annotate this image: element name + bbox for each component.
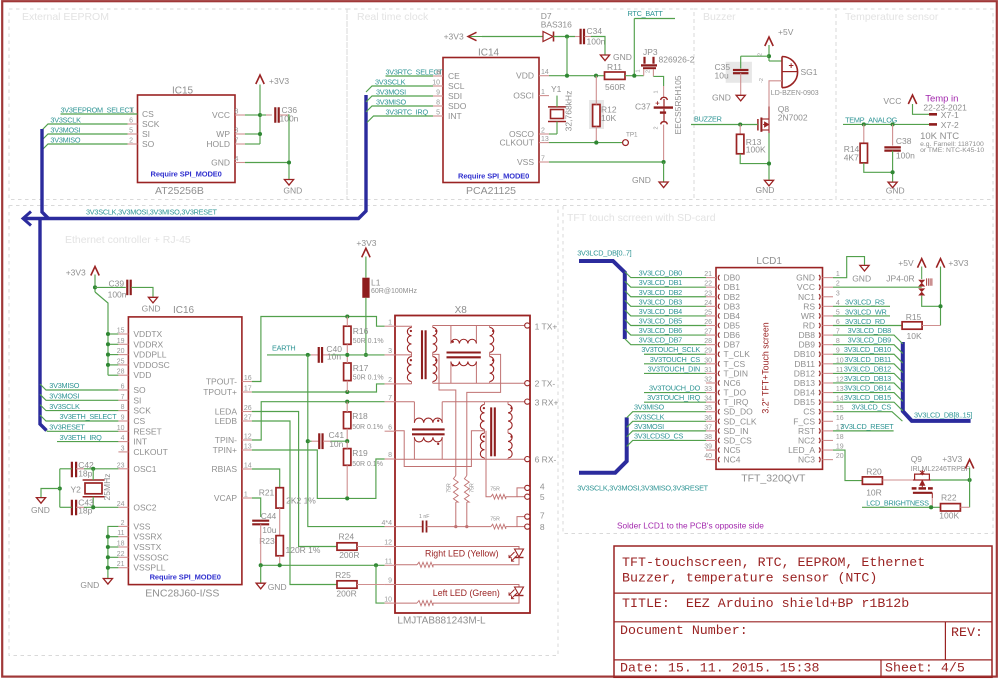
wire TPOUT+ to X8 pin2 [252, 384, 385, 392]
svg-text:R16: R16 [353, 326, 369, 336]
+5V power symbol JP4 [918, 259, 926, 268]
svg-text:9: 9 [388, 578, 392, 585]
+5V power symbol buzzer [765, 37, 773, 46]
junction GND node [287, 160, 291, 164]
wire LCD_BRIGHTNESS to R22 [862, 506, 941, 508]
ground symbol below C36 [284, 180, 293, 186]
svg-text:11: 11 [385, 559, 392, 566]
svg-text:100K: 100K [746, 144, 766, 154]
junction D7/C34 node [565, 34, 569, 38]
svg-text:3V3LCD_DB4: 3V3LCD_DB4 [639, 307, 683, 316]
svg-text:+3V3: +3V3 [948, 258, 968, 268]
svg-text:OSC1: OSC1 [133, 464, 156, 474]
wire +3V3 down to R15 [940, 267, 942, 326]
svg-text:3V3LCD_DB14: 3V3LCD_DB14 [844, 384, 891, 393]
svg-text:GND: GND [712, 93, 731, 103]
connector pin X7-1 [929, 113, 937, 116]
bus 3V3LCD_DB[8..15] [903, 342, 971, 421]
ground symbol C35 [736, 95, 745, 101]
wire 3V3RESET to IC16 RESET [47, 430, 119, 433]
wire TEMP_ANALOG to X7-2 [843, 123, 929, 125]
svg-text:TP1: TP1 [626, 132, 638, 139]
svg-text:RST: RST [798, 426, 815, 436]
svg-text:TPOUT-: TPOUT- [206, 377, 237, 387]
svg-text:IC15: IC15 [172, 86, 194, 97]
svg-text:DB1: DB1 [724, 282, 741, 292]
wire LEDB to R25 [252, 421, 337, 585]
wire OSCI to Y1 [556, 96, 558, 107]
X8 RX bottom rail pin 8 to pin 6 RX- [395, 458, 525, 460]
svg-text:10: 10 [384, 596, 392, 603]
IC16 body [128, 317, 242, 585]
svg-text:3V3MISO: 3V3MISO [634, 403, 664, 412]
svg-text:200R: 200R [336, 589, 356, 599]
svg-text:2 TX-: 2 TX- [535, 379, 556, 389]
svg-text:1: 1 [836, 271, 840, 278]
connector pin X7-2 [929, 123, 937, 126]
svg-text:32,768kHz: 32,768kHz [564, 91, 574, 132]
svg-text:13: 13 [244, 444, 252, 451]
svg-text:3V3LCD_CS: 3V3LCD_CS [851, 403, 891, 412]
svg-text:Buzzer: Buzzer [703, 11, 736, 23]
svg-text:Solder LCD1 to the PCB's oppos: Solder LCD1 to the PCB's opposite side [617, 521, 764, 531]
svg-text:GND: GND [268, 582, 287, 592]
svg-text:CE: CE [448, 71, 460, 81]
wire RD to R15 [833, 325, 902, 327]
svg-text:1: 1 [244, 492, 248, 499]
svg-text:3V3RTC_SELECT: 3V3RTC_SELECT [386, 67, 444, 76]
svg-text:Document Number:: Document Number: [620, 623, 748, 638]
svg-text:3V3LCD_DB0: 3V3LCD_DB0 [639, 269, 683, 278]
svg-text:LCD_BRIGHTNESS: LCD_BRIGHTNESS [866, 499, 929, 508]
svg-text:9: 9 [121, 415, 125, 422]
wire VCC to X7-1 [913, 104, 930, 114]
svg-text:4: 4 [540, 482, 545, 492]
wire IC14 VDD rail [549, 75, 604, 77]
svg-text:RD: RD [803, 321, 815, 331]
bus vertical EEPROM left [42, 129, 49, 219]
svg-text:VDD: VDD [516, 71, 534, 81]
svg-text:3V3ETH_IRQ: 3V3ETH_IRQ [60, 433, 103, 442]
X8 RX transformer core bars [490, 407, 492, 456]
svg-text:DB10: DB10 [794, 349, 816, 359]
+3V3 power symbol LCD right [936, 259, 944, 268]
svg-text:25MHz: 25MHz [102, 474, 112, 501]
wire C36 to GND [280, 114, 288, 116]
X8 RX choke core bars [412, 428, 445, 430]
svg-text:VCC: VCC [212, 110, 230, 120]
svg-text:2N7002: 2N7002 [778, 112, 808, 122]
svg-text:Right LED (Yellow): Right LED (Yellow) [425, 549, 499, 559]
wire 3V3RTC_SELECT to IC14 CE [386, 75, 434, 77]
svg-text:3V3LCD_DB[8..15]: 3V3LCD_DB[8..15] [914, 411, 972, 420]
svg-text:10R: 10R [866, 488, 882, 498]
svg-text:18p: 18p [78, 469, 92, 479]
svg-text:50R 0.1%: 50R 0.1% [353, 338, 384, 345]
wire R12 bottom to CLKOUT [595, 127, 597, 143]
wire 3V3MOSI to IC14 SDI [366, 96, 433, 102]
svg-text:7: 7 [541, 156, 545, 163]
svg-text:or TME: NTC-K45-10: or TME: NTC-K45-10 [920, 147, 984, 154]
svg-text:GND: GND [632, 175, 651, 185]
svg-text:DB9: DB9 [798, 340, 815, 350]
resistor R22 100K [941, 504, 961, 511]
svg-text:20: 20 [836, 453, 844, 460]
svg-text:12: 12 [384, 540, 392, 547]
svg-text:Require SPI_MODE0: Require SPI_MODE0 [458, 172, 529, 181]
svg-text:F_CS: F_CS [793, 416, 815, 426]
ground symbol IC16 VSS [103, 579, 112, 585]
svg-text:3V3TOUCH_DO: 3V3TOUCH_DO [649, 384, 701, 393]
svg-text:3V3SCLK: 3V3SCLK [50, 115, 81, 124]
wire C35 to GND [740, 73, 742, 95]
svg-text:NC3: NC3 [798, 455, 815, 465]
ground symbol ethernet rail [256, 583, 265, 589]
svg-text:T_CLK: T_CLK [724, 349, 751, 359]
wire C34 to GND [584, 36, 591, 38]
bus horizontal 3V3SCLK,3V3MOSI,3V3MISO,3V3RESET [24, 95, 366, 219]
svg-text:3V3RESET: 3V3RESET [49, 423, 85, 432]
X8 RX choke bottom winding [413, 437, 415, 459]
X8 TX pin1 wire and primary upper winding [395, 325, 412, 327]
svg-text:3V3TOUCH_SCLK: 3V3TOUCH_SCLK [641, 345, 700, 354]
svg-text:2: 2 [129, 138, 133, 145]
svg-text:SCK: SCK [133, 406, 151, 416]
svg-text:INT: INT [133, 437, 147, 447]
svg-text:100K: 100K [939, 511, 959, 521]
ground symbol C39 [148, 297, 157, 303]
svg-text:50R 0.1%: 50R 0.1% [352, 461, 383, 468]
svg-text:SI: SI [142, 129, 150, 139]
X8 internal resistor 75R vertical 2 [464, 476, 469, 503]
+3V3 power symbol Q9 [965, 460, 973, 469]
svg-text:3: 3 [388, 348, 392, 355]
X8 RX output circle pin 6 RX- [525, 457, 530, 462]
svg-text:3V3SCLK,3V3MOSI,3V3MISO,3V3RES: 3V3SCLK,3V3MOSI,3V3MISO,3V3RESET [86, 208, 217, 217]
svg-text:EECS5R5H105: EECS5R5H105 [673, 75, 683, 134]
svg-text:+3V3: +3V3 [356, 238, 376, 248]
svg-text:3V3SCLK: 3V3SCLK [634, 412, 665, 421]
svg-text:+3V3: +3V3 [269, 76, 289, 86]
X8 TX output circle pin 2 TX- [525, 381, 530, 386]
svg-text:3: 3 [836, 290, 840, 297]
svg-text:DB8: DB8 [798, 330, 815, 340]
svg-text:WR: WR [801, 311, 815, 321]
junction VCC node [258, 113, 262, 117]
svg-text:7: 7 [121, 394, 125, 401]
wire C42/C43 left tie to GND [60, 468, 72, 470]
svg-text:GND: GND [211, 158, 230, 168]
svg-text:4: 4 [235, 156, 239, 163]
wire R25 to X8 pin9 [357, 584, 385, 586]
svg-text:17: 17 [244, 386, 252, 393]
svg-text:R11: R11 [607, 62, 622, 72]
svg-text:LD-BZEN-0903: LD-BZEN-0903 [771, 90, 819, 97]
wire 3V3SCLK to IC15 SCK [42, 124, 128, 130]
svg-text:GND: GND [886, 186, 905, 196]
wire IC15 WP HOLD tie [245, 143, 260, 145]
svg-text:3V3LCD_DB8: 3V3LCD_DB8 [848, 326, 892, 335]
svg-text:+: + [789, 61, 794, 71]
capacitor C41 10n [308, 440, 312, 442]
capacitor C35 10u with highlight [726, 62, 752, 83]
svg-text:16: 16 [836, 415, 844, 422]
svg-text:VDDTX: VDDTX [133, 329, 162, 339]
svg-text:3V3TOUCH_IRQ: 3V3TOUCH_IRQ [647, 393, 700, 402]
X8 internal 75R connections to 4*4 line [455, 502, 457, 526]
svg-text:10n: 10n [327, 352, 341, 362]
svg-text:2: 2 [646, 70, 652, 73]
resistor R12 10K with highlight [589, 100, 604, 129]
svg-text:T_IRQ: T_IRQ [724, 397, 749, 407]
svg-text:75R: 75R [470, 483, 476, 493]
capacitor C40 10n [318, 347, 320, 363]
svg-text:GND: GND [80, 580, 99, 590]
svg-text:3V3TOUCH_DIN: 3V3TOUCH_DIN [648, 364, 700, 373]
svg-text:3V3LCD_DB9: 3V3LCD_DB9 [848, 336, 892, 345]
wire 3V3SCLK to IC16 SCK [40, 405, 118, 411]
svg-text:Y1: Y1 [551, 84, 562, 94]
wire R13 bottom to GND rail [740, 154, 769, 164]
svg-text:VDDOSC: VDDOSC [133, 360, 169, 370]
svg-text:RTC_BATT: RTC_BATT [628, 9, 664, 18]
X8 TX mid tap down wire to termination [433, 354, 456, 475]
svg-text:TPIN-: TPIN- [215, 435, 237, 445]
resistor R19 50R [344, 449, 351, 466]
svg-text:+5V: +5V [778, 27, 794, 37]
svg-text:3V3LCD_DB15: 3V3LCD_DB15 [844, 393, 891, 402]
ground symbol temp [888, 182, 897, 188]
svg-text:3V3LCD_DB2: 3V3LCD_DB2 [639, 288, 683, 297]
svg-text:DB3: DB3 [724, 301, 741, 311]
resistor R16 50R [344, 326, 351, 344]
svg-text:1: 1 [388, 319, 392, 326]
svg-text:560R: 560R [605, 82, 625, 92]
svg-text:SD_IN: SD_IN [724, 426, 749, 436]
svg-text:3V3LCD_DB11: 3V3LCD_DB11 [844, 355, 891, 364]
wire D7 cathode to VDD node [554, 36, 576, 38]
svg-text:VSSPLL: VSSPLL [133, 563, 165, 573]
resistor R11 560R [605, 72, 626, 79]
wire 3V3MOSI to IC16 SI [40, 394, 118, 400]
IC15 body [138, 95, 236, 183]
junction R17 bottom [345, 390, 349, 394]
svg-text:T_DIN: T_DIN [724, 368, 749, 378]
svg-text:CS: CS [803, 407, 815, 417]
junction VDD/R12 [565, 74, 569, 78]
svg-text:+3V3: +3V3 [444, 32, 464, 42]
svg-text:3V3LCD_DB12: 3V3LCD_DB12 [844, 364, 891, 373]
svg-text:JP3: JP3 [643, 47, 658, 57]
capacitor C36 [274, 107, 276, 123]
svg-text:R24: R24 [339, 532, 355, 542]
svg-text:C34: C34 [587, 26, 603, 36]
svg-text:HOLD: HOLD [206, 139, 230, 149]
wires 3V3LCD_DB8-15 [833, 335, 903, 344]
svg-text:50R 0.1%: 50R 0.1% [353, 375, 384, 382]
svg-text:3V3SCLK,3V3MOSI,3V3MISO,3V3RES: 3V3SCLK,3V3MOSI,3V3MISO,3V3RESET [577, 484, 708, 493]
X8 RX transformer right column windings [508, 405, 512, 430]
svg-text:2K2 1%: 2K2 1% [286, 496, 316, 506]
svg-text:75R: 75R [490, 517, 500, 523]
svg-text:SD_DO: SD_DO [724, 407, 754, 417]
wire VSS to GND [549, 161, 664, 163]
svg-text:OSCI: OSCI [513, 91, 534, 101]
junction R16 top [345, 314, 349, 318]
svg-text:10K: 10K [601, 113, 616, 123]
svg-text:VSSTX: VSSTX [133, 542, 161, 552]
svg-text:+5V: +5V [898, 258, 914, 268]
svg-text:R20: R20 [866, 467, 882, 477]
svg-text:3V3MOSI: 3V3MOSI [50, 125, 80, 134]
ground symbol Q8 [764, 180, 773, 186]
jumper JP3 [641, 64, 657, 66]
svg-text:NC5: NC5 [724, 445, 741, 455]
wire LCD1 VCC pin2 to JP4 [833, 286, 922, 288]
svg-text:GND: GND [756, 185, 775, 195]
wire X8 pin10 to GND rail [376, 565, 385, 603]
svg-text:R23: R23 [259, 536, 275, 546]
svg-text:10u: 10u [262, 525, 276, 535]
svg-text:SCL: SCL [448, 81, 465, 91]
svg-text:5: 5 [540, 492, 545, 502]
wire LCD1 GND pin1 [833, 257, 865, 278]
svg-text:-2: -2 [759, 78, 765, 83]
capacitor C34 [579, 29, 581, 45]
svg-text:SD_CS: SD_CS [724, 435, 753, 445]
wire OSC2 to C43 [76, 506, 84, 508]
svg-text:C38: C38 [896, 136, 912, 146]
svg-text:200R: 200R [339, 550, 359, 560]
svg-text:CS: CS [133, 416, 145, 426]
svg-text:SO: SO [142, 139, 155, 149]
X8 right LED series resistor [417, 562, 433, 567]
svg-text:JP4-0R: JP4-0R [886, 274, 914, 284]
wire LEDA to R24 [252, 412, 337, 547]
svg-text:X8: X8 [455, 305, 468, 316]
svg-text:3V3LCD_RS: 3V3LCD_RS [845, 298, 885, 307]
svg-text:18: 18 [836, 434, 844, 441]
svg-text:R18: R18 [352, 411, 368, 421]
svg-text:16: 16 [244, 375, 252, 382]
X8 TX core bars [421, 330, 423, 379]
svg-text:Temperature sensor: Temperature sensor [845, 11, 939, 23]
svg-text:TITLE: EEZ Arduino shield+BP: TITLE: EEZ Arduino shield+BP r1B12b [622, 596, 909, 611]
svg-text:10K: 10K [907, 331, 922, 341]
wire D7 node down to VDD wire [566, 37, 568, 76]
svg-text:INT: INT [448, 111, 462, 121]
svg-text:VDDPLL: VDDPLL [133, 350, 166, 360]
wire TPIN- to X8 pin7 [252, 402, 385, 440]
svg-text:SI: SI [133, 395, 141, 405]
LCD1 body [716, 268, 823, 470]
X8 RX top rail choke to transformer to pin 3 RX+ [442, 401, 525, 403]
svg-text:DB15: DB15 [794, 397, 816, 407]
wire +3V3 to C39 and VDD pins [94, 275, 96, 293]
wire 3V3MISO to IC15 SO [42, 144, 128, 150]
X8 TX choke core bars [447, 351, 481, 353]
svg-text:2: 2 [121, 520, 125, 527]
X8 RX transformer left column windings [480, 405, 484, 430]
svg-text:10n: 10n [329, 439, 343, 449]
svg-text:75R: 75R [447, 483, 453, 493]
capacitor C39 100n [95, 286, 126, 288]
wires 3V3LCD_DB0-7 to LCD1 [625, 272, 706, 278]
LCD1 left pins [706, 277, 716, 279]
X8 RX pin6 center tap detour under choke [395, 431, 485, 467]
IC15 pin stubs right [235, 114, 245, 116]
svg-text:6: 6 [121, 384, 125, 391]
resistor R25 200R [337, 581, 357, 588]
svg-text:T_CS: T_CS [724, 359, 746, 369]
svg-text:14: 14 [244, 463, 252, 470]
resistor R21 2K2 1% [276, 488, 283, 508]
svg-text:75R: 75R [490, 486, 500, 492]
svg-text:VSS: VSS [133, 521, 150, 531]
wire C38 bottom to GND [892, 151, 894, 182]
resistor R20 10R [862, 477, 882, 484]
svg-text:3V3MISO: 3V3MISO [50, 135, 80, 144]
X8 TX pin2 wire [395, 383, 412, 385]
svg-text:Ethernet controller + RJ-45: Ethernet controller + RJ-45 [65, 234, 191, 246]
svg-text:4K7: 4K7 [844, 153, 859, 163]
svg-text:DB7: DB7 [724, 340, 741, 350]
wire VDD pin connections [108, 333, 118, 335]
svg-text:GND: GND [31, 505, 50, 515]
ground symbol right of C34 [600, 55, 609, 61]
svg-text:CLKOUT: CLKOUT [500, 138, 534, 148]
svg-text:EARTH: EARTH [272, 344, 295, 353]
svg-text:8: 8 [121, 404, 125, 411]
svg-text:C44: C44 [261, 511, 277, 521]
svg-text:2: 2 [653, 126, 659, 129]
svg-text:GND: GND [142, 304, 161, 314]
svg-text:TPIN+: TPIN+ [213, 445, 237, 455]
svg-text:TFT_320QVT: TFT_320QVT [741, 473, 806, 485]
wire C44 bottom to GND rail [260, 524, 262, 565]
svg-text:3V3LCD_DB1: 3V3LCD_DB1 [639, 278, 683, 287]
IC14 pin stubs left [433, 75, 443, 77]
wire IC15 VCC to +3V3 rail [245, 114, 260, 116]
svg-text:32: 32 [704, 376, 712, 383]
svg-text:120R 1%: 120R 1% [286, 545, 321, 555]
resistor R23 120R 1% [276, 536, 283, 556]
svg-text:100n: 100n [896, 151, 915, 161]
svg-text:1 TX+: 1 TX+ [535, 322, 558, 332]
svg-text:Left LED (Green): Left LED (Green) [433, 588, 500, 598]
svg-text:3V3LCD_DB7: 3V3LCD_DB7 [639, 336, 683, 345]
svg-text:X7-2: X7-2 [941, 120, 959, 130]
svg-text:39: 39 [704, 444, 712, 451]
svg-text:7: 7 [235, 138, 239, 145]
svg-text:Buzzer, temperature sensor (NT: Buzzer, temperature sensor (NTC) [622, 571, 877, 586]
svg-text:REV:: REV: [951, 625, 983, 640]
svg-text:3V3LCDSD_CS: 3V3LCDSD_CS [634, 431, 684, 440]
diode D7 BAS316 [482, 36, 543, 38]
X8 RX output circle pin 3 RX+ [525, 399, 530, 404]
svg-text:R22: R22 [941, 493, 957, 503]
wires touch nets to LCD1 [644, 353, 706, 355]
svg-text:IC16: IC16 [173, 305, 195, 316]
svg-text:60R@100MHz: 60R@100MHz [371, 288, 418, 295]
ground symbol Y2 [36, 498, 45, 504]
resistor R24 200R [337, 543, 357, 550]
svg-text:4*4: 4*4 [381, 520, 392, 527]
svg-text:+3V3: +3V3 [66, 268, 86, 278]
svg-text:5: 5 [436, 110, 440, 117]
svg-text:Require SPI_MODE0: Require SPI_MODE0 [151, 170, 222, 179]
svg-text:10u: 10u [715, 71, 729, 81]
